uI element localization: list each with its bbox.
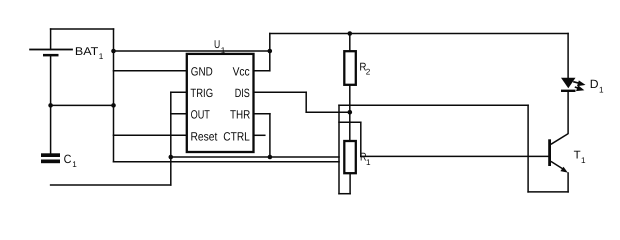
- wire line B: [114, 161, 340, 163]
- node THR junction: [268, 155, 273, 160]
- svg-text:Vcc: Vcc: [233, 64, 250, 78]
- wire battery-minus link: [51, 104, 114, 106]
- svg-text:1: 1: [72, 160, 77, 169]
- wire CTRL pin stub: [254, 134, 265, 136]
- wire DIS horizontal: [306, 111, 350, 113]
- svg-text:OUT: OUT: [191, 108, 211, 122]
- wire top rail right: [270, 33, 568, 35]
- node Vcc junction: [268, 49, 273, 54]
- node DIS / R2 bottom junction: [348, 110, 353, 115]
- wire trig-out vertical: [170, 92, 172, 185]
- wire Reset pin: [114, 134, 187, 136]
- resistor R2: [344, 51, 356, 85]
- svg-text:1: 1: [599, 85, 604, 94]
- svg-text:1: 1: [366, 158, 371, 167]
- svg-text:Reset: Reset: [191, 129, 218, 143]
- LED D1: [561, 78, 583, 92]
- wire R1 bottom lead: [349, 173, 351, 194]
- wire TRIG pin stub: [171, 91, 187, 93]
- svg-text:1: 1: [221, 46, 226, 55]
- wire top-left rail: [51, 28, 114, 30]
- wire line A: [171, 156, 339, 158]
- wire R2 top lead: [349, 34, 351, 52]
- wire jog vertical: [360, 122, 362, 156]
- wire emitter loop vertical: [527, 105, 529, 192]
- wire battery top stub: [50, 29, 52, 50]
- svg-text:DIS: DIS: [235, 86, 250, 100]
- svg-text:1: 1: [99, 52, 104, 61]
- wire DIS pin stub: [254, 91, 307, 93]
- svg-text:CTRL: CTRL: [223, 129, 250, 143]
- wire LED to collector: [567, 92, 569, 134]
- resistor R1: [344, 141, 356, 173]
- wire LED top vertical: [567, 34, 569, 78]
- wire Vcc pin stub: [254, 70, 270, 72]
- svg-text:1: 1: [581, 156, 586, 165]
- wire THR pin stub: [254, 113, 270, 115]
- svg-text:U: U: [214, 39, 220, 51]
- wire base wire: [361, 155, 550, 157]
- wire DIS vertical: [305, 92, 307, 112]
- wire R2 bottom to R1 top: [349, 85, 351, 141]
- svg-text:C: C: [64, 152, 72, 166]
- wire GND pin stub: [114, 70, 187, 72]
- svg-text:T: T: [574, 150, 581, 162]
- svg-text:TRIG: TRIG: [190, 86, 213, 100]
- capacitor C1: [41, 153, 60, 163]
- node R2 top junction: [348, 31, 353, 36]
- wire loop bottom: [339, 193, 350, 195]
- wire THR vertical: [269, 114, 271, 157]
- wire C1 bottom: [51, 184, 171, 186]
- wire bus vertical x339: [338, 105, 340, 194]
- node battery plus junction: [111, 49, 116, 54]
- svg-text:2: 2: [366, 68, 371, 77]
- wire long horizontal y105: [339, 104, 528, 106]
- svg-text:BAT: BAT: [75, 46, 99, 58]
- wire feed to Vcc node: [114, 50, 270, 52]
- svg-text:GND: GND: [191, 64, 213, 78]
- wire emitter vertical: [567, 173, 569, 192]
- wire battery bottom column to C1: [50, 55, 52, 154]
- wire jog horizontal: [339, 121, 361, 123]
- svg-text:D: D: [590, 77, 599, 91]
- op-amp U1 555 IC body: [187, 54, 254, 152]
- wire OUT pin stub: [171, 113, 187, 115]
- battery BAT1: [29, 49, 73, 57]
- wire emitter loop bottom: [528, 191, 568, 193]
- wire left bus vertical: [113, 29, 115, 162]
- node line A left junction: [169, 155, 174, 160]
- wire Vcc node vertical: [269, 34, 271, 71]
- node battery minus right: [111, 103, 116, 108]
- node battery minus left: [48, 103, 53, 108]
- transistor T1: [548, 134, 568, 173]
- svg-text:THR: THR: [230, 108, 251, 122]
